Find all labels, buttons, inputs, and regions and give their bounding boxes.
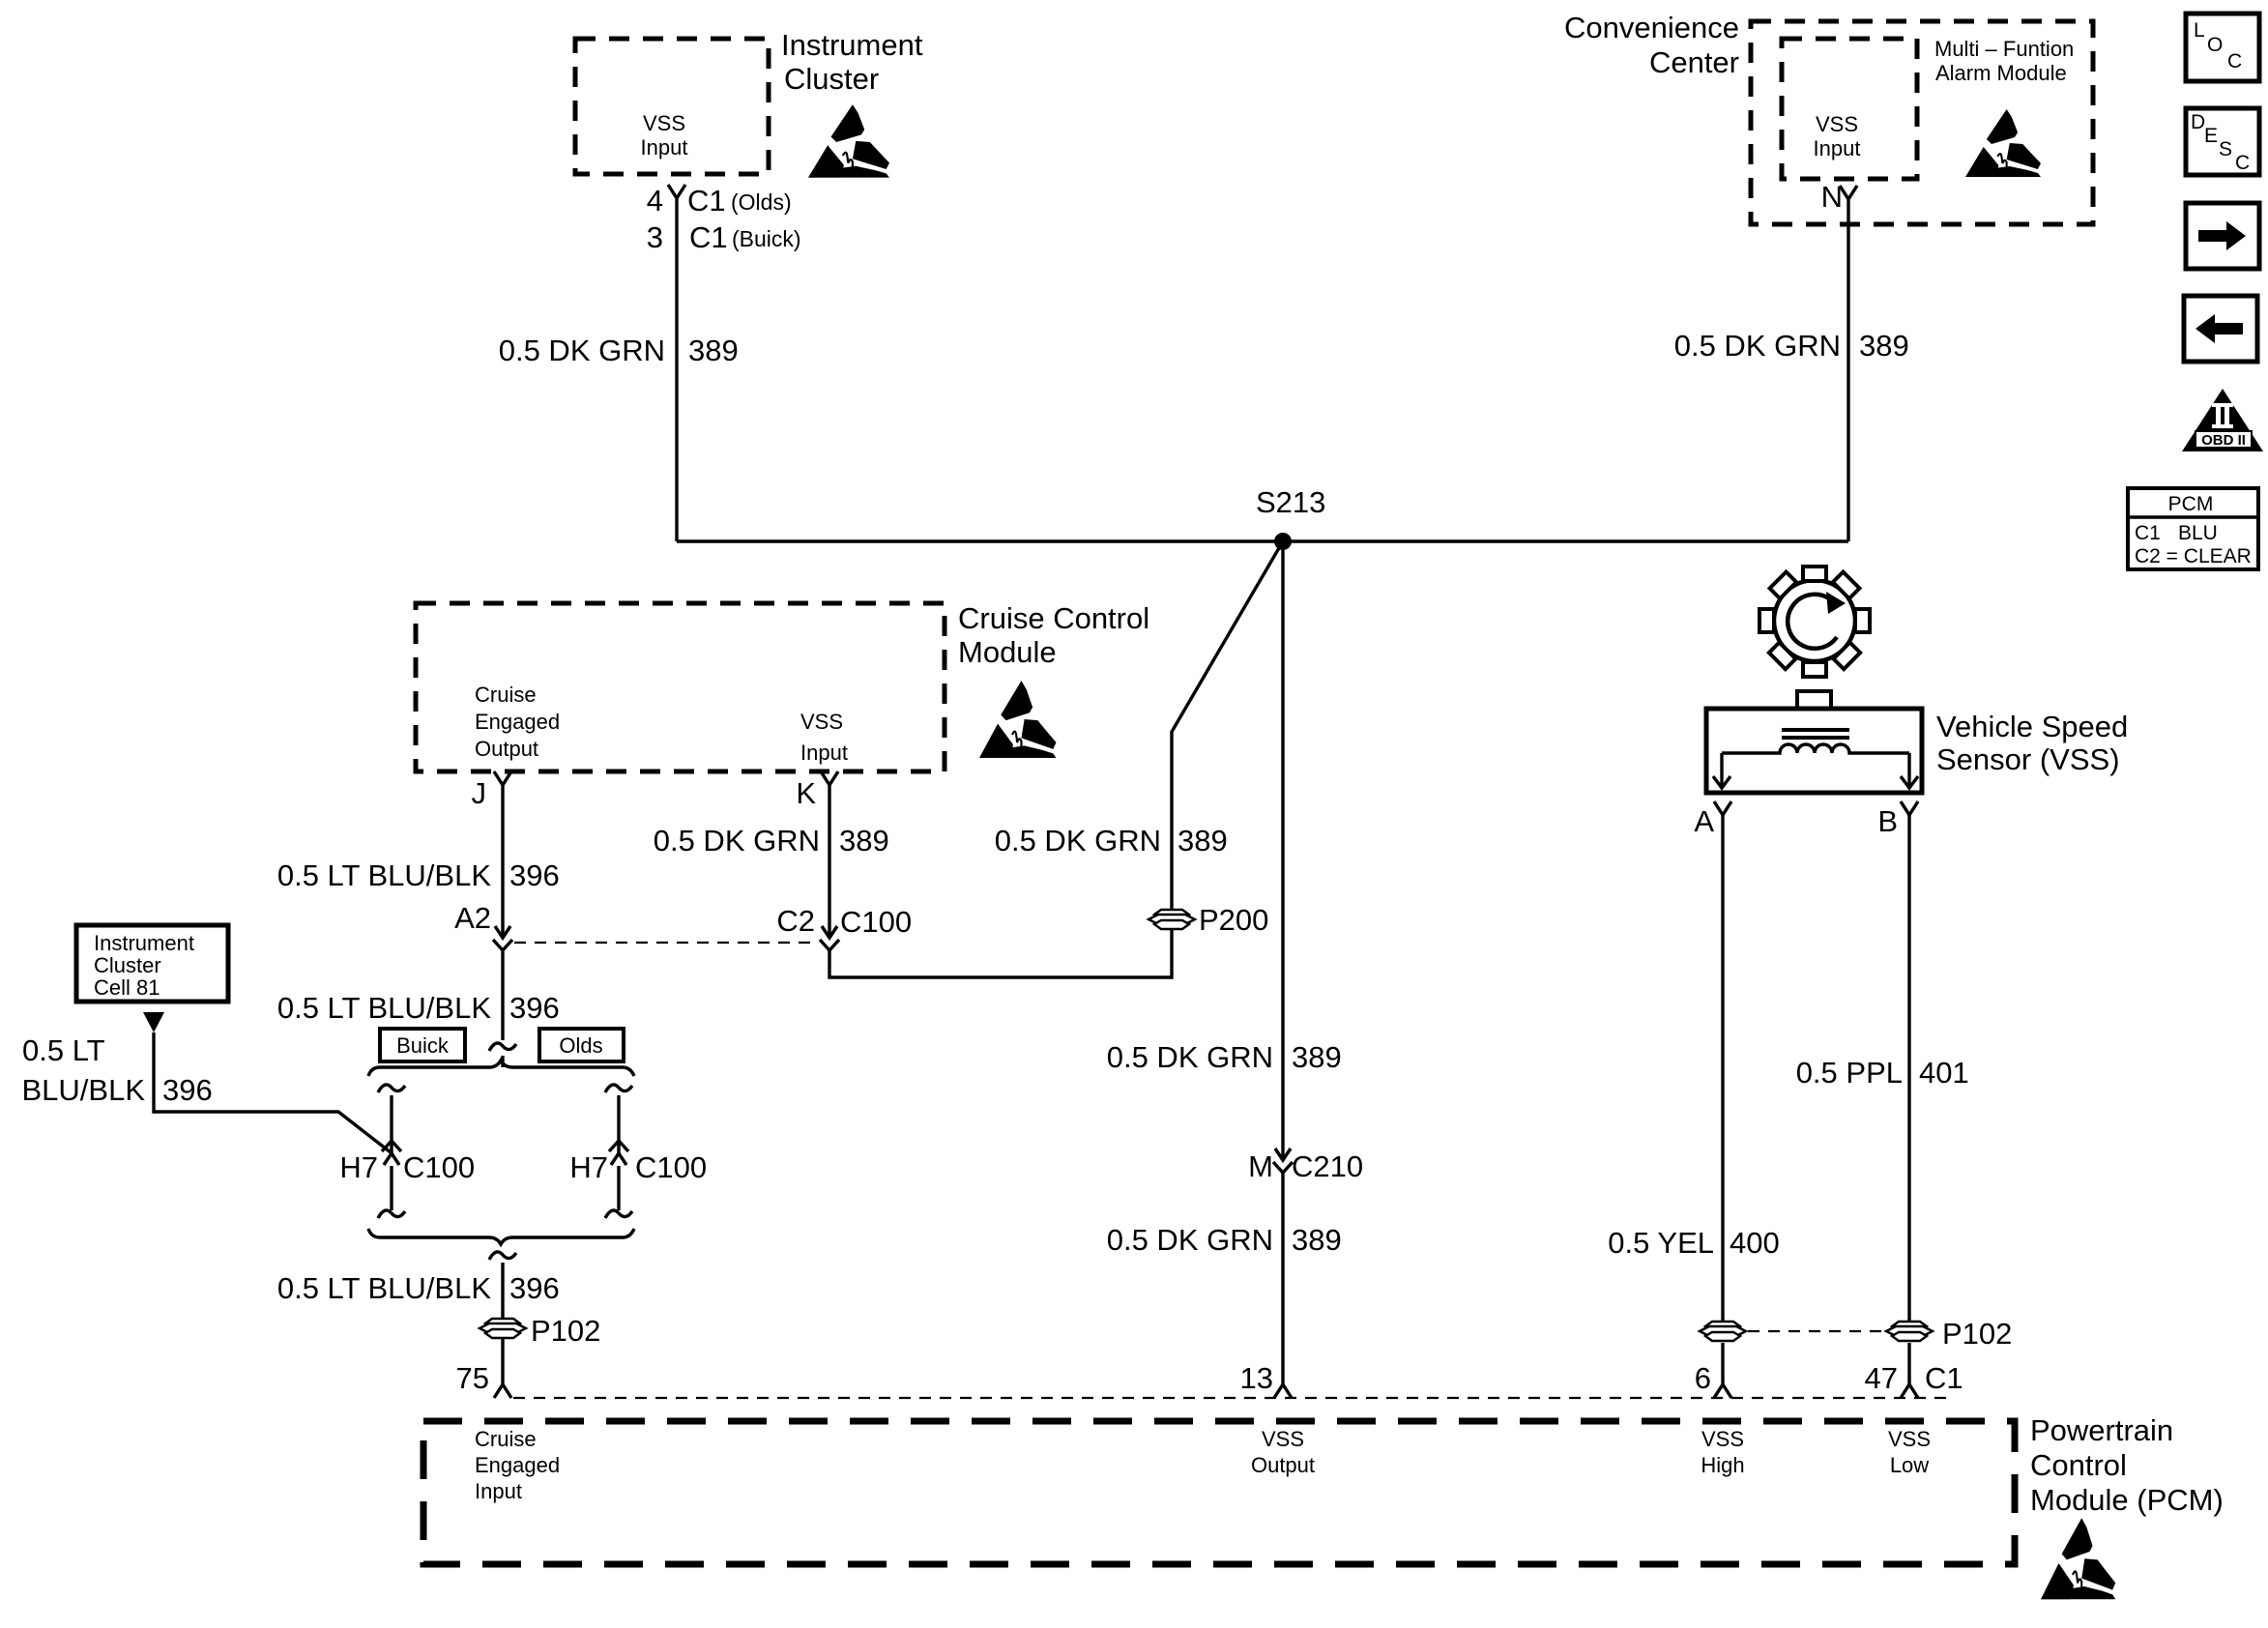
svg-text:0.5 YEL: 0.5 YEL — [1608, 1226, 1714, 1260]
svg-text:VSS: VSS — [800, 710, 843, 734]
OBD II triangle symbol — [2182, 389, 2263, 451]
thin dashed line between A2 and C2 connectors — [514, 942, 818, 944]
svg-text:Input: Input — [800, 741, 848, 765]
connector A2 chevrons — [493, 926, 512, 950]
label J — [472, 776, 487, 810]
splice S213 — [1274, 533, 1292, 550]
svg-text:Input: Input — [641, 135, 688, 160]
svg-text:389: 389 — [1178, 824, 1228, 858]
label Powertrain Control Module (PCM) — [2030, 1413, 2224, 1517]
svg-text:A: A — [1694, 804, 1714, 838]
wire: instrument cluster VSS input down — [675, 198, 678, 541]
label 0.5 DK GRN 389 (P200 riser) — [995, 824, 1228, 858]
svg-text:Powertrain: Powertrain — [2030, 1413, 2173, 1447]
label 75 — [456, 1361, 489, 1395]
pin 6 fork — [1714, 1384, 1731, 1398]
convenience center outer dashed box — [1751, 21, 2093, 224]
svg-text:P102: P102 — [1942, 1317, 2012, 1351]
pin N fork (alarm module) — [1840, 186, 1857, 199]
ESD symbol (PCM) — [2041, 1518, 2115, 1599]
svg-text:0.5 DK GRN: 0.5 DK GRN — [1107, 1040, 1273, 1074]
svg-text:Instrument: Instrument — [781, 28, 923, 62]
label P200 — [1199, 903, 1268, 937]
svg-text:400: 400 — [1730, 1226, 1780, 1260]
label B — [1877, 804, 1898, 838]
svg-text:C210: C210 — [1292, 1149, 1363, 1183]
label K — [796, 776, 816, 810]
svg-text:VSS: VSS — [1701, 1427, 1744, 1451]
svg-text:S: S — [2219, 138, 2232, 160]
left arrow reference box — [2184, 296, 2257, 362]
pigtail P200 — [1149, 910, 1195, 929]
label VSS Low — [1888, 1427, 1931, 1477]
svg-text:E: E — [2204, 125, 2218, 147]
svg-text:47: 47 — [1865, 1361, 1898, 1395]
VSS internal leads with arrows — [1713, 753, 1918, 788]
svg-text:S213: S213 — [1256, 485, 1325, 519]
wire: VSS B down to PCM pin 47 — [1907, 815, 1910, 1384]
svg-text:0.5 DK GRN: 0.5 DK GRN — [654, 824, 820, 858]
svg-text:0.5 LT BLU/BLK: 0.5 LT BLU/BLK — [277, 858, 491, 892]
wire: J down to A2 — [501, 785, 504, 937]
svg-text:A2: A2 — [454, 901, 491, 935]
svg-text:C2: C2 — [776, 904, 815, 938]
svg-text:0.5 PPL: 0.5 PPL — [1796, 1056, 1903, 1090]
svg-text:(Olds): (Olds) — [731, 189, 792, 215]
connector M C210 chevrons — [1273, 1148, 1293, 1173]
svg-text:396: 396 — [509, 1271, 560, 1305]
svg-text:Vehicle Speed: Vehicle Speed — [1936, 710, 2128, 743]
VSS internal core lines — [1782, 730, 1849, 738]
svg-text:389: 389 — [688, 334, 739, 367]
svg-text:VSS: VSS — [643, 111, 685, 135]
label C1 (PCM) — [1925, 1361, 1963, 1395]
label 13 — [1240, 1361, 1273, 1395]
wire: cell 81 to H7 — [154, 1032, 391, 1152]
Buick branch top squiggle — [378, 1085, 405, 1092]
svg-text:Buick: Buick — [396, 1033, 450, 1058]
vehicle speed sensor gear icon — [1759, 567, 1870, 677]
svg-text:O: O — [2207, 34, 2223, 56]
label 0.5 LT BLU/BLK 396 (above P102) — [277, 1271, 560, 1305]
svg-text:Output: Output — [1251, 1453, 1315, 1477]
wire: A2 down to split — [501, 950, 504, 1067]
connector H7 C100 chevrons (Olds) — [609, 1141, 628, 1165]
svg-text:C1: C1 — [687, 184, 726, 218]
svg-text:H7: H7 — [569, 1150, 608, 1184]
svg-text:389: 389 — [1859, 329, 1909, 363]
svg-text:C1: C1 — [689, 220, 728, 254]
pin K fork (cruise module) — [821, 771, 838, 785]
cruise control module dashed box — [416, 603, 945, 771]
pigtail P102 (pin 47 wire) — [1886, 1322, 1933, 1341]
wire: merged down to PCM pin 75 — [501, 1263, 504, 1384]
label VSS Input (alarm module) — [1814, 112, 1861, 160]
svg-text:Engaged: Engaged — [475, 710, 560, 734]
vehicle speed sensor box — [1706, 709, 1922, 793]
svg-text:0.5 DK GRN: 0.5 DK GRN — [1107, 1223, 1273, 1257]
PCM connector color table — [2128, 488, 2258, 569]
svg-text:K: K — [796, 776, 816, 810]
label P102 (left) — [531, 1314, 600, 1348]
pin 47 fork — [1901, 1384, 1918, 1398]
svg-text:Olds: Olds — [559, 1033, 602, 1058]
svg-text:Output: Output — [475, 737, 538, 761]
label 6 — [1695, 1361, 1711, 1395]
ESD symbol (cruise module) — [979, 681, 1057, 758]
svg-text:C1: C1 — [1925, 1361, 1963, 1395]
pigtail P102 (left) — [480, 1319, 526, 1338]
label 47 — [1865, 1361, 1898, 1395]
svg-text:Center: Center — [1649, 45, 1739, 79]
label Convenience Center — [1564, 11, 1739, 79]
svg-text:VSS: VSS — [1816, 112, 1858, 136]
svg-text:C2 = CLEAR: C2 = CLEAR — [2135, 545, 2252, 567]
label 0.5 DK GRN 389 (above C210) — [1107, 1040, 1342, 1074]
svg-text:0.5 LT BLU/BLK: 0.5 LT BLU/BLK — [277, 991, 491, 1025]
svg-text:OBD II: OBD II — [2201, 432, 2246, 449]
svg-text:BLU/BLK: BLU/BLK — [21, 1073, 145, 1107]
svg-text:389: 389 — [1292, 1223, 1342, 1257]
VSS internal coil — [1722, 744, 1909, 753]
pigtail P102 (pin 6 wire) — [1700, 1322, 1746, 1341]
instrument cluster cell 81 box — [76, 925, 228, 1002]
squiggle below merge brace — [489, 1252, 516, 1260]
arrow from cell 81 box — [143, 1012, 164, 1032]
svg-text:13: 13 — [1240, 1361, 1273, 1395]
svg-text:D: D — [2191, 111, 2205, 133]
label VSS Output — [1251, 1427, 1315, 1477]
svg-text:C: C — [2235, 152, 2250, 174]
svg-text:Cluster: Cluster — [784, 62, 879, 96]
connector H7 C100 chevrons (Buick) — [382, 1141, 401, 1165]
svg-text:3: 3 — [647, 220, 663, 254]
labels M C210 — [1248, 1149, 1363, 1183]
pin J fork (cruise module) — [494, 771, 511, 785]
svg-text:C: C — [2227, 50, 2242, 73]
Buick branch bottom squiggle — [378, 1210, 405, 1218]
label 0.5 DK GRN 389 (left top wire) — [499, 334, 739, 367]
svg-text:0.5 DK GRN: 0.5 DK GRN — [499, 334, 665, 367]
instrument cluster dashed box — [575, 39, 769, 174]
wire: VSS A down to PCM pin 6 — [1721, 815, 1724, 1384]
multi-function alarm module inner dashed box — [1782, 39, 1917, 179]
svg-text:L: L — [2194, 19, 2205, 42]
wire: C2 down and right to P200 riser — [829, 541, 1283, 977]
svg-text:0.5 LT: 0.5 LT — [22, 1033, 105, 1067]
svg-text:BLU: BLU — [2178, 522, 2218, 544]
label A2 — [454, 901, 491, 935]
svg-text:0.5 DK GRN: 0.5 DK GRN — [995, 824, 1161, 858]
label N — [1821, 180, 1843, 214]
pin 13 fork — [1274, 1384, 1292, 1398]
label Cruise Engaged Output — [475, 683, 560, 761]
label 0.5 DK GRN 389 (below C210) — [1107, 1223, 1342, 1257]
label VSS Input (cruise module) — [800, 710, 848, 765]
svg-text:Control: Control — [2030, 1448, 2127, 1482]
ESD symbol (instrument cluster) — [808, 104, 889, 178]
label A — [1694, 804, 1714, 838]
wire: Buick branch — [390, 1095, 393, 1210]
ESD symbol (alarm module) — [1965, 109, 2041, 177]
svg-text:VSS: VSS — [1262, 1427, 1304, 1451]
svg-text:Module (PCM): Module (PCM) — [2030, 1483, 2224, 1517]
pin labels 4 C1 (Olds) / 3 C1 (Buick) — [647, 184, 801, 254]
label 0.5 LT BLU/BLK 396 (J wire) — [277, 858, 560, 892]
svg-text:VSS: VSS — [1888, 1427, 1931, 1451]
label Cruise Engaged Input — [475, 1427, 560, 1503]
thin dashed PCM connector line — [513, 1397, 1951, 1399]
label P102 (right) — [1942, 1317, 2012, 1351]
svg-text:Cruise Control: Cruise Control — [958, 601, 1149, 635]
svg-text:(Buick): (Buick) — [732, 226, 801, 251]
label Vehicle Speed Sensor (VSS) — [1936, 710, 2128, 776]
label S213 — [1256, 485, 1325, 519]
pin B fork (VSS) — [1901, 801, 1918, 815]
svg-text:C100: C100 — [403, 1150, 475, 1184]
svg-text:0.5 LT BLU/BLK: 0.5 LT BLU/BLK — [277, 1271, 491, 1305]
wire: S213 down to PCM pin 13 — [1281, 541, 1284, 1384]
label Cruise Control Module — [958, 601, 1149, 669]
svg-text:396: 396 — [162, 1073, 213, 1107]
horizontal bus wire — [677, 539, 1848, 542]
Olds branch bottom squiggle — [605, 1210, 632, 1218]
connector C2 C100 chevrons — [820, 926, 839, 950]
svg-text:PCM: PCM — [2168, 493, 2214, 515]
svg-text:Cell 81: Cell 81 — [94, 975, 160, 1000]
label boxes Buick / Olds — [380, 1029, 465, 1061]
svg-text:Instrument: Instrument — [94, 931, 194, 955]
svg-text:Multi – Funtion: Multi – Funtion — [1934, 37, 2074, 61]
svg-text:Cruise: Cruise — [475, 683, 537, 707]
svg-text:Engaged: Engaged — [475, 1453, 560, 1477]
svg-text:B: B — [1877, 804, 1898, 838]
pin A fork (VSS) — [1714, 801, 1731, 815]
LOC reference box — [2186, 14, 2259, 81]
svg-text:6: 6 — [1695, 1361, 1711, 1395]
labels H7 C100 (Buick) — [339, 1150, 475, 1184]
svg-text:75: 75 — [456, 1361, 489, 1395]
label Multi-Funtion Alarm Module — [1934, 37, 2074, 85]
svg-text:Convenience: Convenience — [1564, 11, 1739, 44]
wire: Olds branch — [617, 1095, 620, 1210]
label 0.5 DK GRN 389 (right top wire) — [1674, 329, 1909, 363]
svg-text:Alarm Module: Alarm Module — [1935, 61, 2067, 85]
label 0.5 YEL 400 — [1608, 1226, 1779, 1260]
wire break squiggle above split brace — [489, 1043, 516, 1051]
PCM dashed box — [423, 1421, 2015, 1564]
label 0.5 PPL 401 — [1796, 1056, 1969, 1090]
Olds branch top squiggle — [605, 1085, 632, 1092]
svg-text:Cluster: Cluster — [94, 953, 161, 977]
svg-text:4: 4 — [647, 184, 663, 218]
merge brace (bottom) — [368, 1229, 634, 1244]
svg-text:M: M — [1248, 1149, 1273, 1183]
svg-text:389: 389 — [839, 824, 889, 858]
labels H7 C100 (Olds) — [569, 1150, 707, 1184]
thin dashed line between P102 pigtails — [1748, 1330, 1884, 1332]
wire: alarm module VSS input down — [1846, 199, 1849, 541]
pin 75 fork — [494, 1384, 511, 1398]
svg-text:396: 396 — [509, 991, 560, 1025]
label Instrument Cluster — [781, 28, 923, 96]
svg-text:C1: C1 — [2135, 522, 2161, 544]
svg-text:Input: Input — [1814, 136, 1861, 160]
svg-text:High: High — [1701, 1453, 1744, 1477]
svg-text:401: 401 — [1919, 1056, 1969, 1090]
right arrow reference box — [2186, 203, 2259, 269]
svg-text:C100: C100 — [840, 905, 912, 939]
svg-text:P200: P200 — [1199, 903, 1268, 937]
label 0.5 DK GRN 389 (K wire) — [654, 824, 889, 858]
svg-text:Input: Input — [475, 1479, 522, 1503]
vehicle speed sensor stub — [1797, 691, 1831, 709]
svg-text:N: N — [1821, 180, 1843, 214]
label 0.5 LT BLU/BLK 396 (cell 81 wire) — [21, 1033, 212, 1107]
svg-text:Module: Module — [958, 635, 1057, 669]
svg-text:0.5 DK GRN: 0.5 DK GRN — [1674, 329, 1841, 363]
svg-text:Low: Low — [1890, 1453, 1929, 1477]
label VSS Input (instrument cluster) — [641, 111, 688, 160]
svg-text:389: 389 — [1292, 1040, 1342, 1074]
labels C2 C100 — [776, 904, 912, 939]
wire: K down to C2 — [828, 785, 830, 937]
svg-text:396: 396 — [509, 858, 560, 892]
label VSS High — [1701, 1427, 1744, 1477]
svg-text:Cruise: Cruise — [475, 1427, 537, 1451]
svg-text:H7: H7 — [339, 1150, 378, 1184]
split brace (top) — [368, 1061, 634, 1076]
svg-text:P102: P102 — [531, 1314, 600, 1348]
pin 4/3 C1 fork (instrument cluster) — [668, 185, 685, 198]
svg-text:C100: C100 — [635, 1150, 707, 1184]
svg-text:J: J — [472, 776, 487, 810]
label 0.5 LT BLU/BLK 396 (below A2) — [277, 991, 560, 1025]
DESC reference box — [2186, 108, 2259, 175]
svg-text:Sensor (VSS): Sensor (VSS) — [1936, 742, 2120, 776]
